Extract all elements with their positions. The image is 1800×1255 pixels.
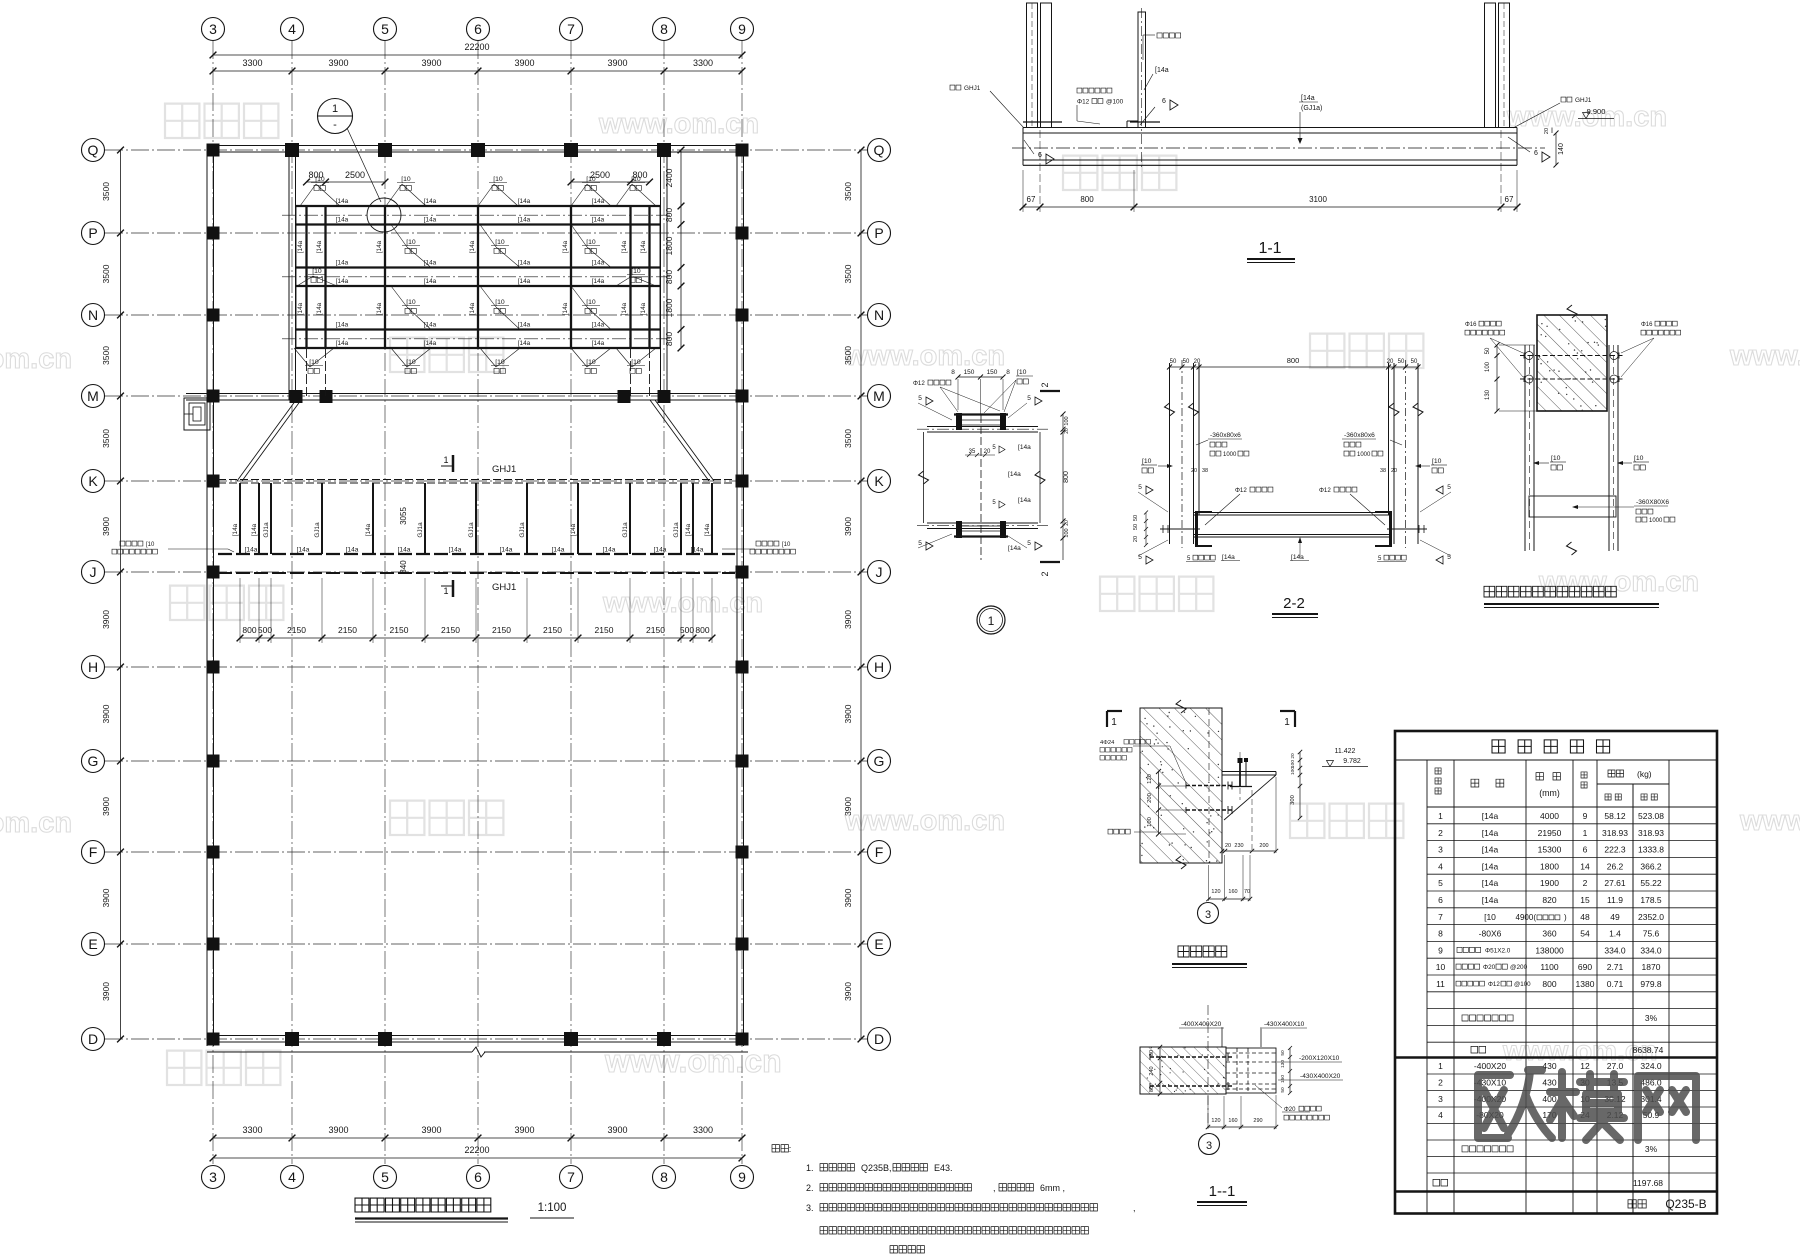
svg-text:1-1: 1-1 [1258,240,1281,257]
svg-text:3500: 3500 [843,182,853,201]
svg-text:2150: 2150 [338,625,357,635]
svg-text:9.782: 9.782 [1343,758,1361,765]
svg-text:5: 5 [1447,484,1451,491]
svg-text:48: 48 [1580,912,1590,922]
svg-text:Q235-B: Q235-B [1665,1197,1706,1211]
svg-text:[10: [10 [631,268,641,275]
svg-text:50: 50 [1183,359,1190,365]
svg-text:11.422: 11.422 [1335,748,1356,755]
svg-text:8: 8 [1438,929,1443,939]
svg-text:1333.8: 1333.8 [1638,845,1664,855]
svg-text:9.900: 9.900 [1587,107,1606,116]
svg-text:[14a: [14a [518,198,531,205]
svg-text:1: 1 [1438,1061,1443,1071]
svg-text:2500: 2500 [345,170,365,180]
svg-text:130: 130 [1280,1060,1286,1068]
connection detail anchor bolts [1520,352,1624,384]
svg-text:M: M [873,388,885,404]
svg-text:-430X400X10: -430X400X10 [1264,1021,1305,1028]
svg-text:www.om.cn: www.om.cn [844,805,1005,837]
svg-text:500: 500 [258,625,272,635]
svg-text:6: 6 [1534,150,1538,157]
svg-text:E: E [88,936,97,952]
2-2 weld flags [1138,484,1451,564]
2-2 hanger labels [10 [1141,458,1447,473]
svg-text:2: 2 [1583,878,1588,888]
svg-text:[14a: [14a [346,547,359,554]
watermark row5 [0,101,1800,1085]
svg-text:[10: [10 [782,542,791,548]
svg-text:334.0: 334.0 [1604,945,1626,955]
svg-text:5: 5 [1438,878,1443,888]
connection detail hanger plate [1529,496,1675,524]
svg-text:J: J [876,564,883,580]
svg-text:334.0: 334.0 [1640,945,1662,955]
svg-text:[14a: [14a [570,523,577,536]
svg-text:160: 160 [1228,1118,1237,1124]
svg-text:3900: 3900 [514,58,534,68]
detail 1-1b centerlines [1208,1005,1261,1130]
svg-text:[14a: [14a [1482,878,1499,888]
svg-text:[14a: [14a [621,302,628,315]
svg-text:2150: 2150 [646,625,665,635]
svg-text:20: 20 [984,449,991,455]
svg-text:120: 120 [1211,1118,1220,1124]
catwalk top dims 800 2500 [303,170,653,185]
walkway post labels rotated [232,522,711,538]
detail1 section marks 2 [1040,382,1060,576]
detail 1-1b left dims [1149,1045,1162,1096]
svg-text:4: 4 [288,1169,296,1185]
svg-text:840: 840 [399,560,408,574]
detail 1-1b bottom dims [1206,1095,1278,1129]
svg-text:8638.74: 8638.74 [1633,1045,1664,1055]
svg-text:3900: 3900 [101,517,111,536]
svg-text:[14a: [14a [449,547,462,554]
svg-text:GHJ1: GHJ1 [492,582,516,593]
svg-text:5: 5 [1138,484,1142,491]
svg-text:1870: 1870 [1642,962,1661,972]
svg-text:324.0: 324.0 [1640,1061,1662,1071]
svg-text:1800: 1800 [664,298,674,317]
svg-text:800: 800 [1542,979,1556,989]
svg-text:GJ1a: GJ1a [263,522,270,538]
svg-text:3900: 3900 [328,1125,348,1135]
svg-text:3: 3 [1438,1094,1443,1104]
svg-text:22200: 22200 [464,42,489,52]
svg-text:2150: 2150 [595,625,614,635]
leader GHJ1 right [1513,97,1592,128]
title 1-1 [1247,240,1295,263]
svg-text:240: 240 [1149,1066,1155,1075]
svg-text:290: 290 [1253,1118,1262,1124]
svg-text:[10: [10 [586,176,596,183]
svg-text:Φ20: Φ20 [1483,964,1496,971]
section 1-1 bottom dims [1020,130,1521,212]
svg-text:6: 6 [1438,895,1443,905]
connection detail side channels [1525,345,1618,555]
svg-text:200: 200 [1147,793,1153,803]
material table 3 percent row section1 [1462,1013,1658,1023]
svg-text:3900: 3900 [421,1125,441,1135]
svg-text:[10: [10 [309,359,319,366]
svg-text:100: 100 [1290,760,1296,768]
axis bubbles bottom 3-9 [202,1166,754,1189]
svg-text:1: 1 [1284,717,1290,728]
svg-text:[14a: [14a [685,523,692,536]
svg-text:[14a: [14a [592,321,605,328]
svg-text:[14a: [14a [562,302,569,315]
svg-text:20: 20 [1290,753,1296,759]
corbel anchor leader text [1100,740,1186,784]
2-2 stiffener labels [1186,537,1406,562]
svg-text:www.om.cn: www.om.cn [1729,340,1800,372]
material table 3 percent row section2 [1462,1144,1658,1154]
svg-text:800: 800 [242,625,256,635]
svg-text:50: 50 [1133,524,1139,530]
svg-text:Q: Q [874,142,885,158]
svg-text:1000: 1000 [1649,518,1663,524]
svg-text:11.9: 11.9 [1607,895,1623,905]
material table header [1427,768,1717,807]
svg-text:[14a: [14a [1301,95,1315,102]
svg-text:[10: [10 [495,359,505,366]
svg-text:[10: [10 [312,268,322,275]
corbel vertical bolt [1230,752,1252,800]
svg-text:[14a: [14a [336,216,349,223]
svg-text:2: 2 [1040,571,1050,576]
svg-text:7: 7 [567,1169,575,1185]
svg-text:[14a: [14a [1222,554,1235,561]
svg-text:1: 1 [1583,828,1588,838]
svg-text:Φ51X2.0: Φ51X2.0 [1485,947,1511,954]
svg-text:27.0: 27.0 [1607,1061,1624,1071]
svg-text:[14a: [14a [1482,811,1499,821]
svg-text:P: P [88,225,97,241]
svg-text:2-2: 2-2 [1283,595,1305,612]
detail mark circle 1 [318,99,382,203]
svg-text:[10: [10 [586,359,596,366]
svg-text:100: 100 [1064,416,1070,425]
svg-text:[14a: [14a [518,259,531,266]
corbel elevations [1322,748,1368,767]
svg-text:Φ12: Φ12 [913,380,925,387]
svg-text:800: 800 [695,625,709,635]
svg-text:[14a: [14a [297,240,304,253]
svg-text:500: 500 [680,625,694,635]
svg-text:222.3: 222.3 [1604,845,1626,855]
svg-text:2150: 2150 [441,625,460,635]
slab edge below D with break [207,1047,748,1057]
svg-text:20: 20 [1191,468,1197,474]
label 14a GJ1a on beam [1298,95,1323,144]
top total dimension 22200 [210,42,746,58]
svg-text:www.om.cn: www.om.cn [0,807,72,839]
svg-text:GJ1a: GJ1a [519,522,526,538]
svg-text:K: K [874,473,884,489]
walkway bottom chord at J [218,572,735,574]
detail 1-1b bolt note [1255,1085,1329,1120]
corbel concrete column [1139,700,1222,869]
svg-text:1000: 1000 [1223,452,1237,458]
svg-text:[10: [10 [406,239,416,246]
svg-text:G: G [874,753,885,769]
svg-text:[10: [10 [631,359,641,366]
axis bubbles right Q-D [868,139,891,1051]
svg-text:[14a: [14a [704,523,711,536]
material table column lines [1427,760,1669,1214]
svg-text:Φ12: Φ12 [1488,981,1500,988]
svg-text:5: 5 [1027,395,1031,402]
svg-text:160: 160 [1228,889,1237,895]
svg-text:[14a: [14a [1482,845,1499,855]
svg-text:D: D [88,1031,98,1047]
wall along axis 8 upper [661,146,668,401]
svg-text:3900: 3900 [328,58,348,68]
2-2 bottom beam 14a [1194,513,1391,538]
svg-text:100: 100 [1290,767,1296,775]
detail1 bottom connector [954,521,1008,538]
corbel dims 120 160 70 [1206,855,1252,901]
svg-text:6: 6 [474,1169,482,1185]
svg-text:[14a: [14a [1018,497,1031,504]
right small dims 20 140 [1544,128,1565,168]
svg-text:N: N [88,307,98,323]
svg-text:820: 820 [1542,895,1556,905]
svg-text:50: 50 [1398,359,1405,365]
svg-text:2: 2 [1438,1077,1443,1087]
svg-text:[14a: [14a [1482,828,1499,838]
svg-text:@200: @200 [1510,964,1528,971]
svg-text:5: 5 [918,395,922,402]
2-2 right column [1389,360,1424,548]
svg-text:[14a: [14a [365,523,372,536]
detail1 35 20 dims [965,449,995,457]
walkway mid beam [218,553,735,555]
svg-text:F: F [875,844,884,860]
svg-text:[14a: [14a [640,240,647,253]
svg-text:800: 800 [664,208,674,222]
svg-text:800: 800 [664,270,674,284]
svg-text:7: 7 [1438,912,1443,922]
svg-text:[14a: [14a [562,240,569,253]
svg-text:[10: [10 [1551,455,1561,462]
svg-text:F: F [89,844,98,860]
svg-text:9: 9 [1583,811,1588,821]
svg-text:4: 4 [1438,1110,1443,1120]
svg-text:138000: 138000 [1535,945,1564,955]
svg-text:3900: 3900 [843,610,853,629]
svg-text:800: 800 [1063,471,1070,483]
wall along axis M [186,394,748,401]
svg-text:979.8: 979.8 [1640,979,1662,989]
svg-text:1: 1 [443,455,448,465]
svg-text:[14a: [14a [424,340,437,347]
section 1-1 right posts [1485,3,1510,128]
svg-text:3900: 3900 [101,888,111,907]
2-2 joint channels [1197,511,1391,547]
svg-text:2150: 2150 [287,625,306,635]
svg-text:4: 4 [1438,861,1443,871]
svg-text:GJ1a: GJ1a [314,522,321,538]
svg-text:[10: [10 [401,176,411,183]
svg-text:P: P [874,225,883,241]
walkway bottom dims 800 500 2150 [237,578,716,643]
2-2 top dims [1167,356,1421,370]
svg-text:12: 12 [1580,1061,1590,1071]
svg-text:1: 1 [1438,811,1443,821]
wall along axis 3 [207,146,214,1047]
svg-text:GJ1a: GJ1a [673,522,680,538]
svg-text:50: 50 [1133,515,1139,521]
svg-text:3900: 3900 [101,610,111,629]
svg-text:5: 5 [381,1169,389,1185]
detail1 top connector [954,413,1008,430]
svg-text:75.6: 75.6 [1643,929,1660,939]
weld marks 6 [1024,98,1550,164]
svg-text:1--1: 1--1 [1209,1183,1236,1200]
svg-text:www.om.cn: www.om.cn [0,343,72,375]
detail 1-1b plate labels top [1179,1021,1307,1047]
svg-text:7: 7 [567,21,575,37]
material table subtotal section1 [1471,1045,1664,1055]
svg-text:800: 800 [664,332,674,346]
svg-text:67: 67 [1027,195,1036,204]
svg-text:2352.0: 2352.0 [1638,912,1664,922]
svg-text:150: 150 [964,369,975,376]
svg-text:1:100: 1:100 [538,1202,567,1214]
material table subtotal section2 [1433,1178,1663,1188]
large watermark over table [1478,1070,1696,1140]
svg-text:3900: 3900 [843,797,853,816]
connection detail anchor labels [1465,321,1681,377]
svg-text:-400X400X20: -400X400X20 [1181,1021,1222,1028]
leader hanger rod label [1077,88,1112,103]
svg-text:2.71: 2.71 [1607,962,1624,972]
svg-text:20: 20 [1391,468,1397,474]
svg-text:GHJ1: GHJ1 [492,464,516,475]
svg-text:1197.68: 1197.68 [1633,1178,1663,1188]
svg-text:120: 120 [1147,774,1153,784]
material table title [1395,740,1717,760]
walkway beam labels [14a [245,547,704,554]
svg-text:3900: 3900 [843,704,853,723]
svg-text:3300: 3300 [693,1125,713,1135]
svg-text:4900(: 4900( [1516,913,1537,922]
beam labels [14a on catwalk [336,198,605,347]
svg-text:300: 300 [1290,795,1296,805]
section 1-1 middle post [1127,8,1146,170]
connection detail left dims [1485,343,1537,414]
svg-text:1.: 1. [806,1163,814,1173]
svg-text:-200X120X10: -200X120X10 [1299,1055,1340,1062]
diagonal braces M to K [237,400,714,481]
svg-text:3: 3 [1438,845,1443,855]
svg-text:2: 2 [1040,382,1050,387]
2-2 left vertical dims [1133,511,1148,548]
columns on axis M wall [290,390,671,403]
svg-text:3900: 3900 [843,517,853,536]
svg-text:[14a: [14a [691,547,704,554]
svg-text:[10: [10 [1484,912,1496,922]
svg-text:-80X6: -80X6 [1479,929,1502,939]
svg-text:[14a: [14a [245,547,258,554]
svg-text:100: 100 [1485,361,1491,372]
detail1 bolt label [913,380,1000,412]
svg-text:Φ12: Φ12 [1077,99,1090,106]
svg-text:9: 9 [738,21,746,37]
svg-text:[14a: [14a [469,302,476,315]
svg-text:100: 100 [1064,528,1070,537]
svg-text:49: 49 [1610,912,1620,922]
svg-text:80: 80 [1149,1050,1155,1056]
svg-text:3900: 3900 [607,58,627,68]
svg-text:[10: [10 [1017,369,1027,376]
svg-text:4Φ24: 4Φ24 [1100,740,1115,746]
svg-text:[14a: [14a [1291,554,1304,561]
svg-text:1.4: 1.4 [1609,929,1621,939]
corbel title [1172,946,1247,968]
svg-text:[14a: [14a [552,547,565,554]
svg-text:-360x80x6: -360x80x6 [1344,432,1375,439]
svg-text:3: 3 [1206,1140,1212,1152]
wall along axis 9 [737,146,744,1047]
svg-text:100: 100 [1147,817,1153,827]
svg-text:1100: 1100 [1540,962,1559,972]
wall along axis D [207,1036,748,1043]
wall along axis 4 upper [289,146,296,401]
svg-text:Φ12: Φ12 [1235,487,1247,494]
elevation 9.900 [1578,107,1614,119]
svg-text:4: 4 [288,21,296,37]
svg-text:[14a: [14a [1018,444,1031,451]
svg-text:3300: 3300 [242,1125,262,1135]
svg-text:5: 5 [918,540,922,547]
svg-text:9: 9 [1438,945,1443,955]
svg-text:,: , [1133,1203,1136,1213]
svg-text:[14a: [14a [251,523,258,536]
svg-text:50: 50 [1485,347,1491,354]
svg-text:[14a: [14a [621,240,628,253]
svg-text:20: 20 [1194,359,1201,365]
material table footer steel grade [1628,1197,1707,1211]
detail 1-1b wall [1140,1047,1226,1094]
svg-text:120: 120 [1211,889,1220,895]
svg-text:50: 50 [1411,359,1418,365]
svg-text:E: E [874,936,883,952]
2-2 bolts [1160,525,1427,533]
svg-text:www.om.cn: www.om.cn [844,340,1005,372]
svg-text:[14a: [14a [398,547,411,554]
svg-text:360: 360 [1542,929,1556,939]
right tie rod label [722,541,795,554]
svg-text:50: 50 [1280,1050,1286,1056]
catwalk right dim stack 2400-800-1800 [664,147,684,352]
svg-text:[14a: [14a [336,259,349,266]
svg-text:800: 800 [1287,356,1300,365]
connection detail concrete column [1537,305,1607,411]
leader rail post label [1143,33,1181,60]
svg-text:3500: 3500 [843,264,853,283]
2-2 hanger plate labels [1196,432,1402,458]
svg-text:230: 230 [1234,843,1243,849]
detail 1-1b steel assembly [1226,1048,1276,1093]
svg-text:[14a: [14a [592,340,605,347]
material table data section2 [1438,1061,1662,1120]
columns on axis 9 wall [736,144,749,1046]
svg-text:[14a: [14a [518,278,531,285]
svg-text:150: 150 [987,369,998,376]
